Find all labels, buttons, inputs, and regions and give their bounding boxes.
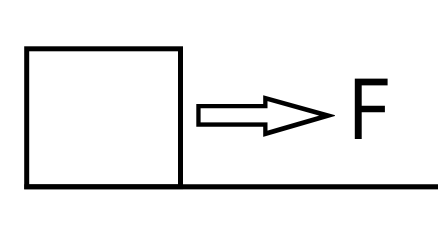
label F (355, 79, 388, 139)
force arrow (hollow block arrow pointing right) (196, 95, 335, 137)
ground surface line (24, 184, 438, 189)
block (box) resting on surface (27, 49, 181, 187)
